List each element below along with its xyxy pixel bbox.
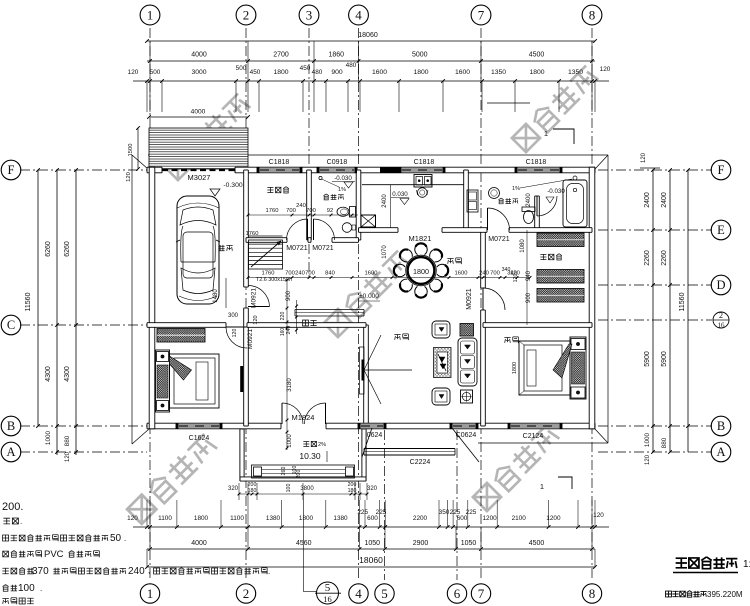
svg-text:2: 2	[243, 8, 250, 23]
svg-text:700: 700	[306, 208, 316, 214]
door M0921 garage-hall	[248, 306, 270, 308]
door M0921 corridor-cloak	[483, 288, 505, 310]
svg-text:6: 6	[454, 586, 461, 601]
note line 7	[2, 598, 8, 603]
svg-text:600: 600	[457, 515, 468, 522]
svg-text:1800: 1800	[299, 515, 314, 522]
svg-text:260: 260	[281, 467, 287, 476]
svg-text:C1624: C1624	[189, 435, 210, 442]
living room label	[394, 335, 400, 340]
svg-text:±0.000: ±0.000	[359, 293, 379, 300]
svg-text:1480: 1480	[213, 289, 219, 303]
svg-text:480: 480	[312, 69, 323, 76]
svg-text:600: 600	[367, 515, 378, 522]
svg-text:M0721: M0721	[488, 236, 510, 243]
dining label	[447, 259, 453, 264]
svg-text:.: .	[20, 517, 22, 526]
svg-text:5: 5	[325, 582, 331, 594]
note line 3	[3, 535, 9, 541]
car in garage	[176, 196, 220, 304]
svg-text:6260: 6260	[45, 241, 52, 257]
svg-text:5: 5	[381, 586, 388, 601]
svg-text:120: 120	[513, 274, 519, 283]
right dimension lines	[652, 170, 654, 452]
svg-text:4500: 4500	[529, 540, 545, 547]
bathroom2 round sink	[489, 188, 500, 199]
svg-text:700: 700	[285, 271, 295, 277]
svg-text:B: B	[717, 419, 725, 433]
svg-text:3800: 3800	[300, 486, 314, 492]
svg-text:900: 900	[286, 290, 292, 301]
cloakroom wardrobes hatched	[537, 233, 584, 247]
cloakroom label	[540, 254, 546, 259]
svg-text:2: 2	[243, 586, 250, 601]
interior dim row storage	[248, 214, 358, 216]
svg-text:1800: 1800	[273, 69, 288, 76]
svg-text:2700: 2700	[273, 52, 289, 59]
svg-text:C0918: C0918	[327, 159, 348, 166]
left dimension lines	[37, 170, 39, 426]
garage label	[218, 245, 224, 251]
axis circles bottom	[140, 584, 159, 603]
svg-text:16: 16	[718, 322, 726, 330]
svg-text:C2224: C2224	[410, 459, 431, 466]
wall storage-hall horizontal	[246, 238, 359, 243]
svg-text:2400: 2400	[526, 193, 532, 207]
detail marker 2/16	[713, 312, 729, 328]
svg-text:120: 120	[641, 152, 647, 163]
dining table	[406, 255, 437, 286]
svg-text:100: 100	[18, 583, 35, 594]
svg-text:1350: 1350	[491, 69, 506, 76]
svg-text:4300: 4300	[64, 366, 71, 382]
wall bath2 stub vertical	[535, 196, 540, 230]
svg-text:3: 3	[306, 8, 313, 23]
svg-text:340: 340	[502, 267, 511, 273]
svg-text:1080: 1080	[520, 239, 526, 253]
porch extension lines	[238, 483, 240, 500]
svg-text:5900: 5900	[644, 351, 651, 367]
svg-text:1000: 1000	[287, 434, 293, 448]
svg-text:500: 500	[236, 65, 247, 72]
watermark W5	[471, 422, 561, 512]
svg-text:120: 120	[127, 515, 138, 522]
toilet bath1	[350, 207, 356, 218]
bottom dimension lines	[133, 526, 609, 528]
wall bottom exterior	[147, 423, 595, 429]
svg-text:4000: 4000	[191, 52, 207, 59]
svg-text:200.: 200.	[2, 501, 23, 513]
svg-text:11560: 11560	[679, 292, 686, 311]
svg-text:C: C	[7, 318, 15, 332]
svg-text:120: 120	[253, 315, 259, 324]
svg-text:120: 120	[65, 451, 71, 462]
door M0721 cloak	[487, 208, 489, 230]
svg-text:120: 120	[128, 69, 139, 76]
dim 4000 above ramp	[149, 116, 248, 118]
svg-text:2900: 2900	[413, 540, 429, 547]
svg-text:450: 450	[250, 69, 261, 76]
svg-text:1070: 1070	[382, 245, 388, 259]
svg-text:1800: 1800	[529, 69, 544, 76]
wall cloak bottom horizontal	[483, 323, 592, 328]
altar small dims	[296, 300, 298, 334]
svg-text:1800: 1800	[512, 362, 518, 374]
svg-text:18060: 18060	[359, 555, 383, 565]
terrace sill lines	[364, 448, 455, 450]
svg-text:1800: 1800	[194, 515, 209, 522]
window C1818 c	[515, 167, 562, 173]
svg-text:100: 100	[286, 484, 292, 493]
bed left bedroom	[156, 350, 220, 412]
svg-text:1500: 1500	[128, 144, 134, 157]
armchair top	[432, 321, 450, 338]
svg-text:2100: 2100	[512, 515, 527, 522]
garage ramp hatched	[149, 128, 248, 169]
porch railing planter	[252, 465, 355, 478]
svg-text:,: ,	[148, 566, 150, 575]
detail marker 5/16	[317, 582, 339, 604]
svg-text:50: 50	[110, 533, 122, 544]
svg-text:120: 120	[645, 454, 651, 465]
window C1624	[176, 423, 222, 429]
svg-text:3000: 3000	[191, 69, 206, 76]
svg-text:1380: 1380	[266, 515, 281, 522]
stove two burner	[414, 175, 432, 188]
wall kitchen right vertical	[464, 170, 469, 230]
wardrobe bedroom1 hatched	[157, 329, 205, 343]
porch room walls	[240, 429, 244, 481]
svg-text:M0921: M0921	[466, 288, 473, 310]
svg-text:11560: 11560	[25, 292, 32, 311]
svg-text:900: 900	[331, 69, 343, 76]
svg-text:4500: 4500	[529, 52, 545, 59]
svg-text:M0721: M0721	[286, 245, 308, 252]
svg-text:240: 240	[295, 271, 305, 277]
svg-text:160: 160	[280, 328, 286, 337]
tv with projection lines	[360, 347, 365, 394]
note line 6 100	[3, 585, 9, 592]
window C0624 a	[358, 423, 386, 429]
svg-text:2400: 2400	[382, 194, 388, 208]
svg-text:16: 16	[323, 594, 332, 604]
sofa three seat	[458, 338, 477, 386]
svg-text:8: 8	[589, 8, 596, 23]
svg-text:M0921: M0921	[247, 329, 254, 349]
svg-text:1: 1	[540, 482, 544, 491]
svg-text:1: 1	[147, 586, 154, 601]
svg-text:2260: 2260	[644, 250, 651, 266]
svg-text:1800: 1800	[413, 69, 428, 76]
bathtub	[563, 180, 587, 227]
niche bar on bedroom wall	[240, 366, 243, 392]
svg-text:1000: 1000	[644, 432, 651, 447]
wall left exterior	[149, 167, 155, 429]
svg-text:1600: 1600	[455, 69, 470, 76]
svg-text:395.220M: 395.220M	[707, 590, 743, 599]
svg-text:E: E	[717, 223, 725, 237]
note line 4 PVC	[3, 551, 9, 557]
svg-text:C2124: C2124	[523, 433, 544, 440]
svg-text:A: A	[6, 445, 15, 459]
svg-text:370: 370	[32, 566, 49, 577]
title first floor plan	[676, 558, 687, 568]
wall storage-bath vertical axis3	[307, 170, 312, 240]
svg-text:1860: 1860	[328, 52, 344, 59]
svg-text:320: 320	[228, 486, 239, 492]
svg-text:PVC: PVC	[44, 549, 64, 560]
garage door M3027 dashed	[162, 169, 235, 171]
svg-text:700: 700	[286, 208, 296, 214]
svg-text:1100: 1100	[158, 515, 172, 522]
watermark W4	[126, 431, 219, 524]
door M0921 bedroom1	[226, 327, 247, 348]
svg-text:225: 225	[466, 509, 477, 516]
watermark W1	[162, 91, 252, 181]
svg-text:2400: 2400	[644, 192, 651, 208]
svg-text:1760: 1760	[262, 271, 275, 277]
svg-text:2: 2	[719, 311, 723, 320]
svg-text:700: 700	[305, 271, 315, 277]
bathroom2 vanity sink	[467, 190, 478, 212]
stairs	[249, 236, 283, 269]
svg-text:1%: 1%	[512, 186, 520, 192]
svg-text:1100: 1100	[230, 515, 244, 522]
eave outline	[148, 154, 608, 156]
svg-text:1200: 1200	[482, 515, 497, 522]
svg-text:1600: 1600	[455, 271, 468, 277]
bathroom1	[324, 194, 329, 200]
wall top exterior	[147, 167, 595, 173]
watermark W3	[322, 248, 412, 338]
top dimension lines	[147, 40, 595, 42]
svg-text:-0.300: -0.300	[223, 182, 242, 189]
bedroom2 label	[504, 338, 510, 343]
svg-text:C1818: C1818	[526, 159, 547, 166]
svg-text:880: 880	[64, 435, 71, 446]
svg-text:M0921: M0921	[251, 288, 258, 308]
grid axis lines vertical	[149, 28, 151, 580]
svg-text:4: 4	[355, 586, 362, 601]
wall kitchen-dining horizontal axisE	[359, 228, 593, 233]
svg-text:B: B	[7, 419, 15, 433]
svg-text:M3027: M3027	[188, 173, 211, 182]
svg-text:1:: 1:	[743, 559, 750, 570]
bathroom2 label	[498, 198, 503, 204]
watermark W2	[510, 63, 600, 153]
svg-text:2200: 2200	[413, 515, 428, 522]
svg-text:92: 92	[327, 208, 333, 214]
svg-text:0.030: 0.030	[392, 191, 408, 198]
altar label	[303, 320, 309, 326]
svg-text:6260: 6260	[64, 241, 71, 257]
svg-text:F: F	[8, 163, 15, 177]
door bath2	[537, 196, 557, 216]
svg-text:2%: 2%	[318, 442, 326, 448]
axis circles left	[1, 160, 21, 180]
svg-text:120: 120	[126, 172, 132, 182]
svg-text:700: 700	[490, 271, 500, 277]
svg-text:1000: 1000	[45, 430, 52, 445]
axis circles top	[140, 5, 160, 25]
svg-text:C0624: C0624	[456, 432, 477, 439]
note line 5 370/240	[2, 568, 8, 573]
bathroom2 toilet	[522, 207, 535, 212]
hall altar table	[295, 309, 364, 311]
shaft box with X	[361, 215, 376, 227]
svg-text:1%: 1%	[338, 187, 346, 193]
wall hall-living vertical	[364, 325, 369, 426]
svg-text:8: 8	[589, 586, 596, 601]
bed right bedroom	[519, 337, 586, 399]
window C2124	[508, 423, 562, 429]
svg-text:5000: 5000	[412, 52, 428, 59]
door M0721 storage	[307, 219, 309, 240]
rug hatched	[434, 348, 452, 378]
svg-text:.: .	[40, 584, 42, 593]
wall right exterior	[589, 167, 595, 429]
svg-text:1380: 1380	[333, 515, 348, 522]
svg-text:880: 880	[661, 437, 668, 448]
svg-text:-0.030: -0.030	[334, 175, 352, 182]
door M0721 bath1	[313, 219, 315, 240]
porch labels	[303, 441, 309, 446]
svg-text:4560: 4560	[296, 540, 312, 547]
svg-text:1350: 1350	[568, 69, 583, 76]
svg-text:7: 7	[478, 8, 485, 23]
svg-text:1: 1	[544, 129, 548, 138]
svg-text:18060: 18060	[358, 32, 378, 39]
window C1818 b	[399, 167, 445, 173]
wok pot	[418, 188, 428, 198]
svg-text:240: 240	[296, 203, 306, 209]
svg-text:480: 480	[346, 62, 357, 69]
svg-text:240: 240	[286, 326, 292, 335]
svg-text:1760: 1760	[246, 231, 259, 237]
sink bath1	[342, 223, 352, 233]
svg-text:4: 4	[355, 8, 362, 23]
svg-text:.: .	[268, 567, 270, 576]
wall bedroom-hall horizontal axisC	[147, 323, 366, 328]
svg-text:240: 240	[479, 271, 489, 277]
kitchen counter edge	[362, 184, 464, 186]
side table top hatched	[460, 324, 474, 337]
svg-text:840: 840	[325, 271, 335, 277]
wall dining-cloak vertical axis7	[481, 230, 486, 426]
dim 1500 left of ramp	[137, 128, 139, 169]
svg-text:1050: 1050	[461, 540, 477, 547]
svg-text:120: 120	[232, 329, 238, 338]
svg-text:1600: 1600	[365, 271, 378, 277]
svg-text:4300: 4300	[45, 366, 52, 382]
svg-text:1760: 1760	[266, 208, 279, 214]
window C1818 a	[257, 167, 302, 173]
svg-text:320: 320	[367, 486, 378, 492]
svg-text:2260: 2260	[661, 250, 668, 266]
window C0918	[317, 167, 357, 173]
hall vertical dims	[286, 280, 288, 450]
svg-text:M1821: M1821	[409, 234, 432, 243]
svg-text:3180: 3180	[287, 378, 293, 392]
subtitle building area	[666, 591, 672, 597]
axis circles right	[711, 160, 731, 180]
svg-text:500: 500	[150, 69, 161, 76]
svg-text:120: 120	[600, 66, 611, 73]
svg-text:D: D	[716, 278, 725, 292]
svg-text:350: 350	[439, 509, 450, 516]
svg-text:220: 220	[280, 312, 286, 321]
svg-text:200: 200	[296, 470, 302, 479]
svg-text:C1818: C1818	[414, 159, 435, 166]
svg-text:.: .	[124, 534, 126, 543]
door M1824 double	[281, 403, 283, 424]
svg-text:240: 240	[128, 566, 145, 577]
window C0624 b	[450, 423, 478, 429]
svg-text:C1818: C1818	[269, 159, 290, 166]
svg-text:5900: 5900	[661, 351, 668, 367]
svg-text:1600: 1600	[372, 69, 387, 76]
interior dim row dining	[248, 277, 530, 279]
svg-text:4000: 4000	[191, 109, 206, 116]
svg-text:F: F	[718, 163, 725, 177]
svg-text:1800: 1800	[413, 267, 429, 276]
svg-text:10.30: 10.30	[299, 451, 321, 461]
svg-text:4000: 4000	[191, 540, 207, 547]
wall garage-hall vertical axis2	[244, 170, 249, 426]
svg-text:2400: 2400	[661, 192, 668, 208]
wall bath-kitchen vertical axis4	[356, 170, 361, 240]
svg-text:M1824: M1824	[292, 413, 315, 422]
svg-text:M0721: M0721	[312, 245, 334, 252]
svg-text:7: 7	[478, 586, 485, 601]
svg-text:A: A	[716, 445, 725, 459]
svg-text:1050: 1050	[364, 540, 380, 547]
side table bottom	[461, 390, 473, 403]
armchair bottom	[432, 388, 450, 405]
svg-text:1: 1	[147, 8, 154, 23]
svg-text:300: 300	[228, 313, 239, 319]
storage room label	[267, 187, 273, 192]
